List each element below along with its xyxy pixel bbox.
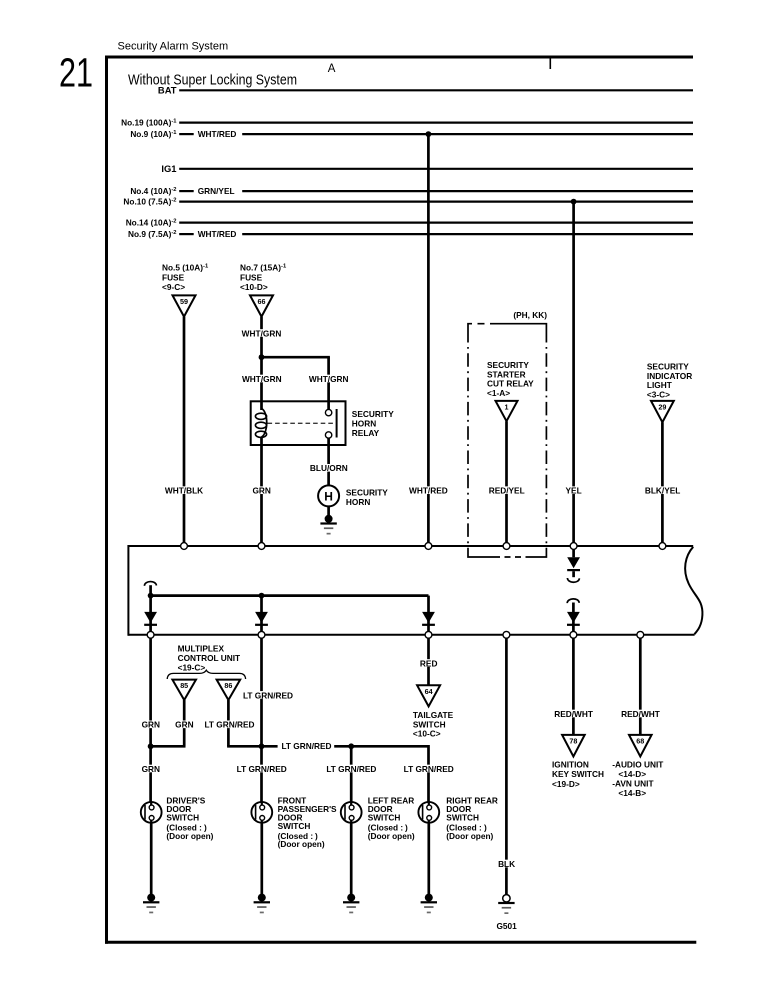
- wire WHT/BLK vertical: [183, 317, 186, 546]
- label LT GRN/RED drop3: [404, 765, 453, 773]
- wire RED/WHT ignition: [572, 638, 575, 735]
- svg-text:H: H: [324, 489, 333, 503]
- svg-text:WHT/GRN: WHT/GRN: [242, 328, 282, 338]
- label LT GRN/RED drop1: [237, 765, 286, 773]
- svg-text:(Door open): (Door open): [446, 831, 493, 841]
- wire LT GRN/RED from 86: [227, 700, 230, 746]
- svg-text:No.19 (100A)-1: No.19 (100A)-1: [121, 118, 177, 128]
- connector triangle 59: [173, 295, 196, 316]
- svg-text:KEY SWITCH: KEY SWITCH: [552, 769, 604, 779]
- option box (PH, KK): [468, 324, 546, 329]
- svg-text:No.9 (7.5A)-2: No.9 (7.5A)-2: [128, 229, 177, 239]
- svg-text:WHT/RED: WHT/RED: [198, 129, 237, 139]
- svg-text:GRN: GRN: [142, 764, 160, 774]
- diode internal mid: [255, 612, 268, 623]
- svg-text:(PH, KK): (PH, KK): [513, 310, 547, 320]
- svg-text:LT GRN/RED: LT GRN/RED: [237, 764, 287, 774]
- label WHT/BLK: [164, 486, 205, 494]
- band torn right edge: [685, 547, 702, 634]
- svg-text:LT GRN/RED: LT GRN/RED: [404, 764, 454, 774]
- grid tick top border: [549, 59, 551, 70]
- svg-text:RED/WHT: RED/WHT: [621, 709, 660, 719]
- svg-text:<10-C>: <10-C>: [413, 729, 441, 739]
- wire GRN from 85: [183, 700, 186, 746]
- svg-text:SWITCH: SWITCH: [446, 812, 479, 822]
- diode YEL stub: [567, 557, 580, 568]
- wire YEL stub into band: [572, 549, 575, 557]
- label WHT/GRN right: [308, 375, 349, 383]
- connector triangle 1: [496, 401, 518, 421]
- label GRN 3: [140, 765, 162, 773]
- brace multiplex: [167, 670, 245, 679]
- connector node B5 on band bottom: [570, 631, 577, 638]
- switch left rear door switch: [341, 802, 362, 823]
- svg-text:RELAY: RELAY: [352, 428, 380, 438]
- node LT GRN/RED junction: [259, 743, 265, 749]
- svg-text:WHT/RED: WHT/RED: [409, 486, 448, 496]
- svg-text:66: 66: [258, 297, 266, 306]
- label BLK/YEL: [643, 486, 683, 494]
- label WHT/GRN upper: [241, 329, 282, 337]
- connector node B3 on band bottom: [425, 631, 432, 638]
- svg-text:G501: G501: [496, 921, 517, 931]
- connector triangle 68: [629, 735, 652, 757]
- wire GRN upper: [260, 445, 263, 546]
- label LT GRN/RED 86: [205, 720, 254, 728]
- svg-text:Security Alarm System: Security Alarm System: [118, 41, 229, 53]
- svg-text:No.14 (10A)-2: No.14 (10A)-2: [126, 218, 177, 228]
- node internal junction 1: [148, 593, 154, 599]
- wire BLU/ORN: [327, 445, 330, 486]
- svg-text:RED/WHT: RED/WHT: [554, 709, 593, 719]
- svg-text:BLK/YEL: BLK/YEL: [645, 486, 681, 496]
- svg-text:No.4 (10A)-2: No.4 (10A)-2: [130, 186, 176, 196]
- ground G501: [503, 895, 510, 902]
- wire below left rear door switch: [350, 823, 353, 895]
- label GRN 2: [173, 720, 195, 728]
- relay box SECURITY HORN RELAY: [251, 401, 346, 445]
- svg-text:<14-B>: <14-B>: [618, 788, 646, 798]
- label WHT/RED: [408, 486, 449, 494]
- svg-text:WHT/BLK: WHT/BLK: [165, 486, 203, 496]
- connector node A2 on band top: [258, 543, 265, 550]
- svg-text:LT GRN/RED: LT GRN/RED: [326, 764, 376, 774]
- connector triangle 64: [417, 685, 440, 706]
- wire below front passenger's door switch: [260, 823, 263, 895]
- svg-text:29: 29: [658, 403, 666, 412]
- svg-text:No.5 (10A)-1: No.5 (10A)-1: [162, 263, 209, 273]
- svg-text:64: 64: [425, 687, 433, 696]
- svg-text:No.9 (10A)-1: No.9 (10A)-1: [130, 129, 177, 139]
- wire BLK/YEL: [661, 422, 664, 546]
- wire RED: [427, 638, 430, 685]
- wire rear branch stub: [262, 745, 278, 748]
- relay contact: [327, 401, 330, 409]
- connector triangle 66: [250, 295, 273, 316]
- wire rear branch: [334, 745, 428, 748]
- svg-text:IG1: IG1: [161, 163, 176, 174]
- svg-text:1: 1: [505, 403, 509, 412]
- svg-text:LT GRN/RED: LT GRN/RED: [243, 690, 293, 700]
- connector node A6 on band top: [659, 543, 666, 550]
- wire internal left: [149, 585, 152, 631]
- svg-text:CONTROL UNIT: CONTROL UNIT: [178, 653, 241, 663]
- node GRN junction: [148, 743, 154, 749]
- svg-text:68: 68: [636, 737, 644, 746]
- wire WHT/GRN upper: [260, 317, 263, 402]
- ground horn: [325, 515, 333, 523]
- connector node B4 on band bottom: [503, 631, 510, 638]
- band bottom line: [128, 634, 694, 636]
- band top line: [128, 545, 693, 547]
- svg-text:WHT/GRN: WHT/GRN: [309, 374, 349, 384]
- wire internal right: [427, 596, 430, 632]
- svg-text:BAT: BAT: [158, 84, 177, 95]
- svg-text:RED/YEL: RED/YEL: [489, 486, 525, 496]
- svg-text:A: A: [328, 63, 336, 75]
- svg-text:HORN: HORN: [346, 497, 370, 507]
- svg-text:86: 86: [224, 681, 232, 690]
- svg-text:<19-D>: <19-D>: [552, 779, 580, 789]
- svg-text:<19-C>: <19-C>: [178, 663, 206, 673]
- svg-text:WHT/GRN: WHT/GRN: [242, 374, 282, 384]
- svg-text:(Door open): (Door open): [368, 831, 415, 841]
- wire RED/YEL: [505, 421, 508, 546]
- svg-text:No.10 (7.5A)-2: No.10 (7.5A)-2: [123, 197, 176, 207]
- horn SECURITY HORN: [318, 485, 339, 506]
- wire right rear drop: [427, 745, 430, 802]
- label RED: [418, 659, 440, 667]
- connector triangle 85: [172, 680, 196, 700]
- svg-text:HORN: HORN: [352, 419, 376, 429]
- svg-text:LT GRN/RED: LT GRN/RED: [281, 741, 331, 751]
- label RED/WHT audio: [620, 710, 661, 718]
- svg-text:59: 59: [180, 297, 188, 306]
- ground right rear door switch: [425, 894, 433, 902]
- svg-text:<3-C>: <3-C>: [647, 389, 670, 399]
- svg-text:SWITCH: SWITCH: [166, 812, 199, 822]
- svg-text:BLU/ORN: BLU/ORN: [310, 463, 348, 473]
- band left edge: [127, 545, 129, 636]
- connector node A1 on band top: [181, 543, 188, 550]
- wire BLK: [505, 638, 508, 895]
- connector node A3 on band top: [425, 543, 432, 550]
- svg-text:<1-A>: <1-A>: [487, 388, 510, 398]
- svg-text:<10-D>: <10-D>: [240, 282, 268, 292]
- switch driver's door switch: [141, 802, 162, 823]
- svg-text:GRN: GRN: [175, 720, 193, 730]
- label YEL: [564, 486, 584, 494]
- horn ground wire: [327, 506, 330, 516]
- switch right rear door switch: [418, 802, 439, 823]
- label RED/WHT ignition: [553, 710, 594, 718]
- wire LT GRN/RED main: [260, 638, 263, 802]
- ground front passenger's door switch: [258, 894, 266, 902]
- label WHT/GRN left: [241, 375, 282, 383]
- wire YEL stub end: [572, 571, 575, 577]
- connector node B2 on band bottom: [258, 631, 265, 638]
- ground driver's door switch: [147, 894, 155, 902]
- svg-text:78: 78: [569, 737, 577, 746]
- svg-text:GRN: GRN: [252, 486, 270, 496]
- wire WHT/RED vertical: [427, 134, 430, 546]
- relay dashed link: [268, 422, 335, 424]
- frame border: [107, 57, 694, 944]
- connector node B6 on band bottom: [637, 631, 644, 638]
- wire below driver's door switch: [150, 823, 153, 895]
- wire ignition feed: [572, 603, 575, 632]
- svg-text:WHT/RED: WHT/RED: [198, 229, 237, 239]
- svg-text:LT GRN/RED: LT GRN/RED: [204, 720, 254, 730]
- connector node A4 on band top: [503, 543, 510, 550]
- node WHT/GRN junction: [259, 354, 265, 360]
- svg-text:FUSE: FUSE: [240, 272, 263, 282]
- label RED/YEL: [487, 486, 527, 494]
- svg-text:GRN/YEL: GRN/YEL: [198, 186, 235, 196]
- label BLU/ORN: [309, 464, 349, 472]
- svg-text:SWITCH: SWITCH: [278, 821, 311, 831]
- wire internal mid: [260, 596, 263, 632]
- ground left rear door switch: [347, 894, 355, 902]
- connector node B1 on band bottom: [147, 631, 154, 638]
- relay coil: [260, 401, 263, 410]
- wire YEL vertical: [572, 202, 575, 546]
- svg-text:YEL: YEL: [566, 486, 582, 496]
- switch front passenger's door switch: [251, 802, 272, 823]
- diode internal left: [144, 612, 157, 623]
- svg-text:GRN: GRN: [142, 720, 160, 730]
- label BLK: [497, 860, 517, 868]
- label GRN upper: [251, 486, 273, 494]
- wire RED/WHT audio: [639, 638, 642, 735]
- label LT GRN/RED right of A2: [244, 691, 293, 699]
- internal bus line: [151, 594, 429, 597]
- node internal junction 2: [259, 593, 265, 599]
- svg-text:FUSE: FUSE: [162, 272, 185, 282]
- svg-text:No.7 (15A)-1: No.7 (15A)-1: [240, 263, 287, 273]
- svg-text:SWITCH: SWITCH: [368, 812, 401, 822]
- wire left rear drop: [350, 746, 353, 802]
- connector triangle 86: [217, 680, 241, 700]
- svg-text:SECURITY: SECURITY: [352, 409, 394, 419]
- connector node A5 on band top: [570, 543, 577, 550]
- svg-text:<9-C>: <9-C>: [162, 282, 185, 292]
- label LT GRN/RED drop2: [327, 765, 376, 773]
- wire GRN main: [149, 638, 152, 802]
- svg-text:(Door open): (Door open): [166, 831, 213, 841]
- connector triangle 78: [562, 735, 585, 757]
- svg-text:85: 85: [180, 681, 188, 690]
- diode ignition feed: [567, 612, 580, 623]
- connector triangle 29: [651, 401, 674, 422]
- diode internal right: [422, 612, 435, 623]
- svg-text:Without Super Locking System: Without Super Locking System: [128, 72, 297, 88]
- curl left wire end: [144, 582, 156, 586]
- svg-text:21: 21: [59, 50, 93, 96]
- wire WHT/GRN branch: [260, 356, 330, 359]
- svg-text:SECURITY: SECURITY: [346, 487, 388, 497]
- svg-text:(Door open): (Door open): [278, 839, 325, 849]
- svg-text:BLK: BLK: [498, 859, 515, 869]
- curl ignition feed start: [567, 599, 579, 603]
- wire below right rear door switch: [427, 823, 430, 895]
- svg-text:RED: RED: [420, 658, 438, 668]
- label GRN 1: [140, 720, 162, 728]
